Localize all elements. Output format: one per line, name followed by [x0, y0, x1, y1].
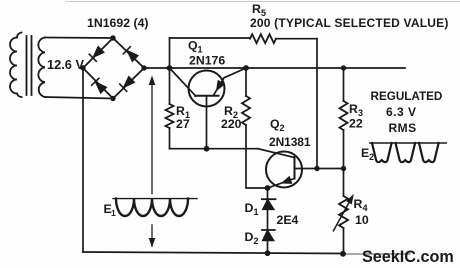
- svg-text:D: D: [245, 230, 254, 244]
- wire secondary top to bridge top vertex: [45, 37, 113, 40]
- transistor Q1 circle: [189, 71, 225, 107]
- bridge diode lower-left: [92, 78, 106, 92]
- svg-text:2: 2: [369, 152, 374, 162]
- svg-text:12.6 V: 12.6 V: [47, 57, 84, 72]
- diode D2: [262, 229, 275, 231]
- svg-text:2: 2: [280, 123, 285, 133]
- svg-text:R: R: [349, 102, 358, 116]
- Q1 base bar: [195, 95, 219, 97]
- E1 waveform: [113, 198, 197, 200]
- svg-text:R: R: [176, 104, 185, 118]
- node bridge right: [141, 65, 146, 70]
- svg-text:2N1381: 2N1381: [269, 135, 311, 149]
- node Q2 collector x317: [314, 166, 319, 171]
- node bridge top: [110, 35, 115, 40]
- node D2 bottom: [265, 250, 271, 256]
- svg-text:RMS: RMS: [389, 121, 417, 135]
- resistor R1: [169, 68, 171, 104]
- wire base bus y148.7: [170, 148, 259, 150]
- node bridge bottom: [110, 96, 115, 101]
- svg-text:E: E: [361, 146, 369, 160]
- svg-text:6.3 V: 6.3 V: [386, 105, 417, 119]
- R4 variable arrow: [333, 199, 351, 231]
- watermark line: [343, 253, 410, 255]
- transistor Q2 circle: [266, 152, 302, 188]
- node D1 top: [265, 185, 271, 191]
- svg-text:REGULATED: REGULATED: [371, 90, 443, 103]
- svg-text:Q: Q: [188, 39, 198, 53]
- bridge diode upper-left: [89, 47, 103, 61]
- svg-text:SeekIC.com: SeekIC.com: [362, 248, 454, 266]
- svg-text:2E4: 2E4: [277, 213, 299, 227]
- wire vertical x317 down to Q2 collector: [316, 39, 318, 169]
- node collector x343: [341, 166, 346, 171]
- diode D1: [267, 188, 269, 199]
- Q1 base lead: [206, 96, 208, 149]
- wire vertical x170 top: [169, 38, 171, 68]
- node rail x170: [167, 65, 173, 71]
- svg-text:200 (TYPICAL SELECTED VALUE): 200 (TYPICAL SELECTED VALUE): [250, 16, 449, 30]
- svg-text:1: 1: [111, 208, 116, 218]
- wire diagonal into Q2 base bar: [258, 149, 295, 158]
- svg-text:27: 27: [176, 117, 190, 131]
- resistor R5: [250, 34, 276, 43]
- faint top border line: [66, 1, 460, 3]
- Q1 emitter lead: [214, 68, 247, 95]
- wire R5 right to corner: [276, 38, 317, 40]
- node rail x246: [243, 65, 249, 71]
- svg-text:R: R: [252, 2, 261, 16]
- Q2 emitter lead: [268, 179, 295, 189]
- wire positive rail y68: [144, 67, 405, 69]
- transformer T1 primary winding: [17, 33, 22, 38]
- svg-text:4: 4: [363, 203, 368, 213]
- bridge diode upper-right: [123, 47, 137, 61]
- E1 measurement arrow line: [151, 79, 153, 194]
- bridge rectifier edges: [83, 38, 144, 99]
- Q2 emitter arrow: [282, 177, 292, 184]
- transformer core: [27, 36, 32, 95]
- svg-text:220: 220: [221, 117, 242, 131]
- svg-text:2N176: 2N176: [189, 54, 225, 68]
- Q1 collector lead: [170, 68, 196, 96]
- resistor R2: [245, 68, 247, 96]
- svg-text:R: R: [354, 197, 363, 211]
- Q1 emitter arrow: [217, 81, 225, 91]
- E2 waveform: [370, 142, 447, 144]
- svg-text:Q: Q: [270, 117, 280, 131]
- wire bottom rail: [83, 252, 343, 254]
- Q2 collector lead: [295, 168, 344, 170]
- svg-text:D: D: [245, 201, 254, 215]
- svg-text:10: 10: [355, 213, 369, 227]
- bridge diode lower-right: [120, 77, 134, 91]
- resistor R3: [343, 68, 345, 101]
- node base bus: [204, 146, 210, 152]
- wire top rail to R5: [170, 37, 251, 39]
- svg-text:1N1692 (4): 1N1692 (4): [87, 16, 149, 30]
- wire left column from bridge left vertex to bottom rail: [82, 68, 84, 252]
- node rail x343: [341, 65, 346, 70]
- resistor R4: [343, 169, 345, 197]
- svg-text:1: 1: [254, 207, 259, 217]
- node bridge left: [80, 65, 85, 70]
- svg-text:2: 2: [254, 236, 259, 246]
- transformer T1 secondary winding: [38, 38, 45, 98]
- svg-text:R: R: [224, 104, 233, 118]
- node R4 bottom: [340, 251, 346, 257]
- Q2 base bar: [294, 157, 296, 179]
- svg-text:22: 22: [349, 117, 363, 131]
- wire secondary bottom to bridge bottom vertex: [45, 97, 113, 99]
